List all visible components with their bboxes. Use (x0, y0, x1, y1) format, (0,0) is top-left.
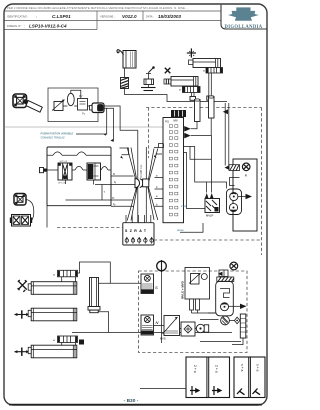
dashed line right of SZRAT box (154, 239, 262, 241)
symbol X (cylinder 1) (18, 280, 27, 292)
wire housing waist left (208, 312, 216, 314)
svg-text:SCAMB.CAL.: SCAMB.CAL. (140, 164, 143, 178)
svg-text:DATA :: DATA : (146, 14, 154, 18)
fan pump housing (227, 189, 242, 215)
outlet connector right (101, 169, 112, 171)
MVLE sub box (185, 268, 210, 300)
gauge on top edge (157, 260, 167, 272)
step line inside notes box (230, 178, 240, 186)
inlet valve striped (fan) (225, 165, 240, 171)
wire arrow1 to riser P1 (191, 122, 197, 129)
small gear pump circle (196, 324, 208, 332)
fan pump circle 1 (230, 192, 238, 200)
wire d line below box (111, 205, 134, 207)
filter F1 (hatched) (121, 78, 129, 89)
small relief valve with arrow (218, 270, 228, 277)
svg-text:MVLE + MVD: MVLE + MVD (180, 281, 184, 299)
connector valve3 right (79, 340, 84, 345)
svg-text:15/03/2003: 15/03/2003 (158, 14, 181, 19)
svg-text:VERSIONE :: VERSIONE : (100, 14, 115, 18)
svg-text:s + a: s + a (240, 364, 244, 372)
wire gauge down (161, 272, 163, 343)
radiator fan bowtie (127, 130, 158, 222)
valve N (141, 315, 154, 335)
wire y283 to pump box (99, 282, 142, 284)
svg-text:SPC.05: SPC.05 (60, 161, 68, 163)
dashed boundary horizontal (146, 107, 262, 109)
symbol plus-arrows (cylinder 3) (14, 348, 29, 356)
svg-text:b₁: b₁ (114, 181, 116, 184)
svg-text:DIGOLLANDIA: DIGOLLANDIA (225, 25, 263, 30)
solenoid MV block (171, 110, 186, 117)
vertical dashed line center (148, 108, 150, 159)
pipe from valve C down (207, 73, 214, 100)
wire vertical to MVLP arrows (207, 136, 212, 193)
wire valve1 right to circuit (78, 262, 111, 283)
filter column VC (88, 278, 100, 313)
trunk elbow down to motor group (225, 103, 229, 166)
diamond gauge port (229, 317, 240, 324)
svg-text:SZRAT: SZRAT (125, 229, 148, 233)
wire arrow2 to riser P2 (191, 118, 212, 136)
valve S (141, 274, 154, 294)
svg-text:MVS: MVS (160, 337, 166, 341)
fan pump circle 2 (229, 203, 237, 211)
cylinder 2 (28, 308, 77, 321)
bowtie top-left bracket (120, 148, 129, 159)
riser pipe P1 (195, 99, 201, 122)
MVLE circle (201, 274, 207, 280)
svg-text:COMANDO TRASLAZ.: COMANDO TRASLAZ. (41, 136, 66, 139)
cylinder 3 (28, 345, 77, 358)
svg-text:V012.0: V012.0 (122, 14, 137, 19)
tank T1 plates (141, 88, 156, 91)
bottom border thick line (9, 404, 262, 406)
svg-text:MV: MV (174, 119, 178, 123)
valve B (under cylinder B) (183, 87, 201, 93)
MVLE pipes down (190, 299, 200, 310)
wire manifold to MVLP port (184, 153, 207, 209)
manifold port squares column (169, 125, 178, 216)
valve cylinder1 (a) (58, 270, 78, 281)
radiator right wires to manifold (155, 178, 164, 207)
legend table 1 (186, 357, 230, 398)
wires MVLE pipes to right (192, 310, 216, 313)
SZRAT connector box (123, 215, 154, 245)
power pack dashed box (139, 271, 248, 353)
long wire to pump box (72, 332, 232, 334)
logo box (221, 5, 267, 29)
hand pump lever assembly (144, 67, 154, 88)
SZRAT symbols row (125, 237, 153, 244)
pump group dashed box (engine) (48, 88, 98, 122)
header divider col2 (142, 11, 144, 21)
wire between valves (72, 169, 75, 171)
dashed line left of SZRAT box (57, 227, 123, 229)
svg-text:MVLP: MVLP (206, 214, 214, 218)
brake pedal icon (14, 194, 26, 206)
valve C (under cylinder C right end) (206, 68, 223, 74)
MVLE valve square (189, 273, 201, 284)
wire valve box to radiator (line a) (111, 175, 134, 177)
main pump housing right (216, 281, 234, 316)
svg-text:b₂: b₂ (113, 203, 115, 206)
MVLP arrows up (205, 193, 214, 199)
gauge ellipse in pump box (67, 93, 74, 105)
bottom valve (travel) (163, 316, 180, 336)
symbol plus-arrows (cylinder 2) (14, 310, 29, 318)
legend table 2 (234, 357, 265, 398)
header row line 3 (5, 29, 98, 31)
cylinder 1 (28, 282, 77, 295)
svg-text::: : (24, 23, 25, 28)
pipe from valve B down (190, 93, 196, 101)
header divider col1 (96, 11, 98, 30)
header row line 1 (5, 10, 222, 12)
svg-text:S: S (155, 285, 158, 290)
header row line 2 (5, 20, 222, 22)
brake valve 2 (half black) (87, 163, 101, 180)
presa pressure tap lines (180, 223, 203, 232)
crossing bridge arc 1 (75, 166, 83, 170)
bowtie top-right bracket (154, 144, 164, 158)
svg-text:2 + a: 2 + a (193, 365, 197, 373)
brake valve 1 (solenoid X) (58, 163, 72, 180)
hatched cap (217, 277, 234, 282)
wire accumulator to filter (124, 68, 126, 78)
symbol X (no function) top (165, 68, 171, 74)
svg-text:DISEGN. N°: DISEGN. N° (7, 24, 21, 28)
svg-text:SPC.05: SPC.05 (58, 183, 66, 185)
riser pipe P2 (209, 96, 215, 118)
svg-text:PER L'ORDINE DEGLI RICAMBI LEG: PER L'ORDINE DEGLI RICAMBI LEGGERE ATTEN… (7, 6, 188, 10)
svg-text:presa: presa (176, 228, 184, 232)
MVLP valve block (205, 199, 220, 213)
pump outlet wires to brake valve box (104, 106, 138, 130)
inlet connector left (40, 168, 59, 173)
svg-text:a₂: a₂ (112, 197, 114, 200)
bottom square valve with diamond (181, 322, 195, 336)
svg-text:- B30 -: - B30 - (124, 398, 139, 404)
drop from valve1 (66, 180, 94, 185)
aux motor circle top right (230, 262, 238, 270)
joystick pilot control icon (13, 94, 42, 112)
drain line lower (200, 340, 241, 342)
svg-text:P01: P01 (165, 121, 170, 124)
svg-text:2 bar: 2 bar (180, 204, 188, 208)
dashed boundary vertical right (261, 108, 263, 256)
wire c line (66, 199, 134, 201)
wire into pump from left (200, 319, 219, 321)
arrow left on riser (223, 109, 228, 114)
pump circle lower (221, 316, 230, 325)
fan motor symbol M (242, 163, 250, 171)
svg-text:s + a: s + a (256, 364, 260, 372)
control box in pump box (78, 99, 88, 111)
manifold outlet arrow 1 (184, 126, 191, 132)
valve cylinder3 (a) (58, 336, 78, 345)
wire b line (95, 184, 135, 186)
svg-text:POMPA PORTATA VARIABILE: POMPA PORTATA VARIABILE (41, 133, 74, 136)
variable displacement valve in pump box (52, 100, 65, 111)
svg-text:2 + a: 2 + a (215, 365, 219, 373)
svg-text:N: N (156, 320, 159, 325)
wire pump1 out right (238, 196, 246, 198)
manifold outlet arrow 2 (184, 133, 191, 139)
svg-text:IDENTIFICATIVO: IDENTIFICATIVO (7, 14, 27, 18)
accumulator A1 (117, 50, 136, 68)
cylinder B (mid) (164, 77, 198, 87)
tank bracket (240, 314, 246, 338)
symbol + (plus with ticks) (187, 48, 196, 57)
light gray fold line (5, 126, 164, 128)
svg-text:a₁: a₁ (113, 173, 115, 176)
wire pedal to brake valve (curved) (26, 200, 34, 222)
motor circle in housing (221, 303, 229, 311)
svg-text:C.LSP01: C.LSP01 (52, 14, 71, 19)
brake valve box (service brakes) (47, 147, 111, 206)
svg-text::: : (36, 14, 37, 19)
return line to legend (140, 388, 186, 390)
hydraulic manifold box (163, 118, 184, 223)
notes box (fan drive unit) (233, 159, 257, 231)
cylinder C (top right) (189, 59, 221, 68)
step line inside housing (220, 289, 230, 298)
arrow right out of notes box (246, 194, 253, 199)
brake master valve (two sections) (10, 215, 32, 227)
svg-text:LSP10-V012.0-C4: LSP10-V012.0-C4 (29, 24, 67, 29)
wire motor out right with arrow (229, 305, 241, 307)
wire bottom valves (154, 326, 197, 329)
wires inside pump box (63, 90, 90, 106)
wire filter to trunk (125, 89, 228, 102)
crossing bridge arc 2 (101, 167, 108, 171)
wire from valve box bottom-left down (46, 206, 48, 228)
wire manifold to pump housing (staircase) (184, 147, 227, 189)
short vertical in box (101, 185, 103, 201)
main pump body (90, 103, 105, 113)
logo emblem (teal bird) (228, 7, 259, 20)
wire VC foot to long line (98, 312, 108, 333)
